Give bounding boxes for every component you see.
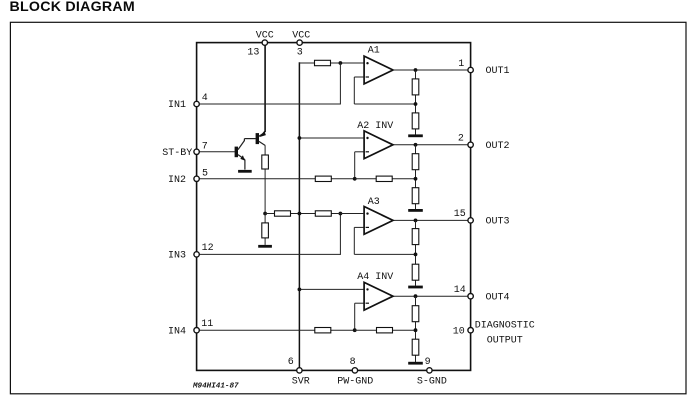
label IN3 [168,251,186,262]
label OUT2 [486,141,510,152]
resistor lower bias [262,223,269,238]
svg-text:3: 3 [297,48,303,59]
svg-text:VCC: VCC [256,31,274,42]
pin 6 terminal [297,368,302,373]
op-amp A2 [364,131,393,159]
wire A4 output [393,295,468,297]
label A3 [368,197,380,208]
wire bias row [265,213,364,215]
pin 4 terminal [194,101,199,106]
node bias center junction [263,212,267,216]
svg-text:SVR: SVR [292,377,310,388]
wire IN3 rise [339,213,341,255]
label S-GND [417,377,447,388]
svg-text:M94HI41-87: M94HI41-87 [192,382,239,390]
wire A3 output [393,219,468,221]
svg-text:IN4: IN4 [168,326,186,337]
svg-text:VCC: VCC [292,31,310,42]
label DIAGNOSTIC [475,320,535,331]
wire A3 feedback [354,253,415,255]
pin 1 terminal [468,67,473,72]
wire A1 bias branch [299,62,364,64]
resistor A3 divider upper [412,229,419,245]
wire SVR pin3 vertical [298,62,300,367]
label pin number 4 [202,93,208,104]
label pin number 7 [202,142,208,153]
svg-text:6: 6 [288,357,294,368]
pin 14 terminal [468,294,473,299]
svg-text:IN3: IN3 [168,251,186,262]
svg-text:DIAGNOSTIC: DIAGNOSTIC [475,320,535,331]
pin 3 terminal [297,40,302,45]
label IN1 [168,100,186,111]
resistor A1 divider upper [412,79,419,95]
label pin number 11 [201,319,213,330]
label A4 INV [357,272,393,283]
svg-text:ST-BY: ST-BY [162,148,192,159]
ground A1 divider [408,134,423,137]
pin 8 terminal [352,368,357,373]
label pin number 15 [454,209,466,220]
resistor A4 feedback [377,328,393,333]
pin 11 terminal [194,328,199,333]
svg-text:15: 15 [454,209,466,220]
svg-text:A1: A1 [368,46,380,57]
label figure code [192,382,239,390]
transistor Q1 [235,139,256,170]
node A4 output junction [414,294,418,298]
label OUT4 [486,292,510,303]
ground A4 divider [408,362,423,365]
label SVR [292,377,310,388]
svg-text:IN1: IN1 [168,100,186,111]
label pin number 9 [425,357,431,368]
node A2 output junction [414,143,418,147]
resistor A4 divider upper [412,306,419,322]
pin 5 terminal [194,176,199,181]
wire IN1 [199,103,340,105]
wire A2 divider chain [415,145,417,209]
svg-text:OUT1: OUT1 [486,66,510,77]
resistor bias row left [275,211,291,216]
ground Q1 emitter [238,170,252,173]
label A2 INV [357,121,393,132]
svg-text:14: 14 [454,285,466,296]
svg-text:S-GND: S-GND [417,377,447,388]
node A1 divider tap [414,102,418,106]
label VCC (pin 13) [256,31,274,42]
wire Q2 collector chain [264,145,266,213]
wire IN1 rise [339,63,341,105]
wire A1 -input loop [354,77,364,104]
svg-text:9: 9 [425,357,431,368]
label pin number 8 [350,357,356,368]
wire lower bias chain [264,214,266,245]
resistor A1 bias [315,60,331,65]
wire IN4 [199,329,354,331]
resistor A4 divider lower [412,339,419,355]
op-amp A1 [364,56,393,84]
svg-text:A4 INV: A4 INV [357,272,393,283]
label A1 [368,46,380,57]
svg-text:5: 5 [202,168,208,179]
ground A2 divider [408,209,423,212]
label pin number 10 [453,326,465,337]
transistor Q2 [256,131,266,146]
resistor A3 divider lower [412,264,419,280]
label IN2 [168,175,186,186]
svg-text:OUTPUT: OUTPUT [487,335,523,346]
label OUT1 [486,66,510,77]
svg-text:A2 INV: A2 INV [357,121,393,132]
label PW-GND [337,377,373,388]
node A3 +input junction [339,212,343,216]
node A3 output junction [414,219,418,223]
svg-text:7: 7 [202,142,208,153]
svg-text:8: 8 [350,357,356,368]
svg-text:IN2: IN2 [168,175,186,186]
pin 12 terminal [194,252,199,257]
label pin number 1 [458,59,464,70]
pin 7 terminal [194,149,199,154]
label OUTPUT [487,335,523,346]
label pin number 3 [297,48,303,59]
wire ST-BY to Q1 base [199,151,235,153]
svg-text:OUT2: OUT2 [486,141,510,152]
node A2 divider tap [414,177,418,181]
node A2 -input junction [353,177,357,181]
svg-text:11: 11 [201,319,213,330]
ground lower bias [258,245,272,248]
wire IN2 [199,178,355,180]
resistor Q2 emitter [262,155,269,169]
wire A4 feedback [355,329,416,331]
pin 15 terminal [468,218,473,223]
node A2 bias tap [298,136,302,140]
wire VCC pin13 vertical [264,45,266,132]
wire IN3 [199,253,340,255]
pin 9 terminal [427,368,432,373]
op-amp A3 [364,207,393,235]
label IN4 [168,326,186,337]
pin 13 terminal [262,40,267,45]
svg-text:2: 2 [458,134,464,145]
pin 10 terminal [468,328,473,333]
resistor bias row right [315,211,331,216]
wire A2 -input loop [355,152,364,179]
resistor IN4 input [315,328,331,333]
label pin number 6 [288,357,294,368]
node bias row SVR junction [298,212,302,216]
label VCC (pin 3) [292,31,310,42]
wire A2 output [393,144,468,146]
wire A2 +input bias [299,137,364,139]
resistor IN2 input [315,176,331,181]
wire A1 output [393,69,468,71]
node A3 divider tap [414,253,418,257]
svg-text:4: 4 [202,93,208,104]
label pin number 2 [458,134,464,145]
svg-text:13: 13 [247,48,259,59]
resistor A1 divider lower [412,113,419,129]
label pin number 12 [202,243,214,254]
wire A1 divider chain [415,70,417,135]
wire A4 +input bias [299,288,364,290]
node A1 +input junction [339,61,343,65]
wire A4 -input loop [355,303,364,330]
resistor A2 divider lower [412,188,419,204]
svg-text:OUT4: OUT4 [486,292,510,303]
svg-text:1: 1 [458,59,464,70]
wire A2 feedback [355,178,416,180]
node A4 divider tap [414,328,418,332]
label pin number 5 [202,168,208,179]
label pin number 14 [454,285,466,296]
op-amp A4 [364,282,393,310]
label pin number 13 [247,48,259,59]
wire A3 -input loop [354,227,364,254]
node A4 bias tap [298,288,302,292]
svg-text:A3: A3 [368,197,380,208]
label ST-BY [162,148,192,159]
node A1 output junction [414,68,418,72]
IC boundary box [197,43,471,371]
svg-text:OUT3: OUT3 [486,217,510,228]
wire A3 divider chain [415,220,417,285]
node A4 -input junction [353,328,357,332]
svg-text:10: 10 [453,326,465,337]
resistor A2 feedback [376,176,392,181]
pin 2 terminal [468,142,473,147]
wire A1 feedback [354,103,415,105]
wire A4 divider chain [415,296,417,362]
label OUT3 [486,217,510,228]
ground A3 divider [408,286,423,289]
resistor A2 divider upper [412,154,419,170]
svg-text:12: 12 [202,243,214,254]
svg-text:PW-GND: PW-GND [337,377,373,388]
